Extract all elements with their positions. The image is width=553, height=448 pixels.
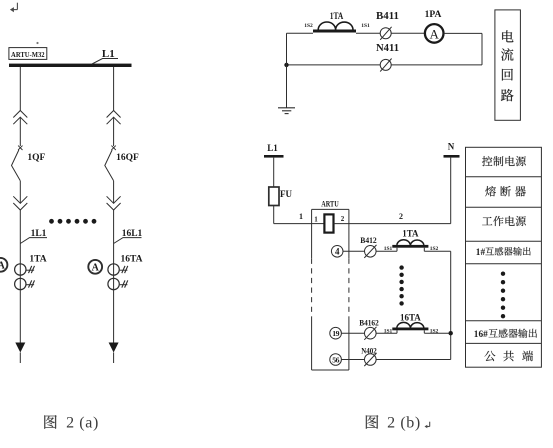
svg-text:1TA: 1TA bbox=[402, 229, 419, 239]
svg-text:16#: 16# bbox=[474, 330, 488, 340]
svg-text:1TA: 1TA bbox=[330, 12, 344, 22]
svg-text:1S2: 1S2 bbox=[304, 23, 313, 29]
svg-text:1QF: 1QF bbox=[27, 153, 45, 163]
svg-text:16QF: 16QF bbox=[116, 153, 139, 163]
svg-text:19: 19 bbox=[332, 329, 339, 338]
svg-text:B4162: B4162 bbox=[359, 319, 379, 328]
svg-text:ARTU: ARTU bbox=[321, 200, 339, 209]
svg-text:16TA: 16TA bbox=[121, 255, 143, 265]
svg-text:56: 56 bbox=[332, 355, 339, 364]
svg-text:FU: FU bbox=[280, 189, 292, 199]
svg-text:4: 4 bbox=[335, 247, 340, 257]
svg-text:L1: L1 bbox=[267, 143, 278, 153]
svg-text:B411: B411 bbox=[376, 11, 399, 22]
svg-text:1TA: 1TA bbox=[29, 255, 46, 265]
svg-text:16TA: 16TA bbox=[400, 313, 421, 323]
svg-text:16L1: 16L1 bbox=[122, 229, 143, 239]
svg-text:2: 2 bbox=[399, 212, 403, 221]
svg-text:1: 1 bbox=[299, 212, 303, 221]
svg-text:1L1: 1L1 bbox=[31, 229, 47, 239]
svg-text:N402: N402 bbox=[361, 347, 377, 356]
svg-text:1S1: 1S1 bbox=[384, 329, 393, 335]
svg-text:L1: L1 bbox=[102, 48, 115, 60]
svg-text:1S1: 1S1 bbox=[361, 23, 370, 29]
svg-text:N411: N411 bbox=[376, 43, 399, 54]
svg-text:1#: 1# bbox=[476, 248, 486, 258]
svg-text:B412: B412 bbox=[360, 236, 377, 245]
svg-text:1PA: 1PA bbox=[425, 10, 442, 20]
svg-text:2: 2 bbox=[341, 215, 345, 223]
svg-text:A: A bbox=[0, 261, 6, 272]
svg-text:2 (a): 2 (a) bbox=[66, 415, 99, 432]
svg-text:2 (b): 2 (b) bbox=[387, 415, 421, 432]
svg-text:ARTU-M32: ARTU-M32 bbox=[11, 50, 45, 59]
svg-text:N: N bbox=[448, 142, 455, 152]
svg-text:1: 1 bbox=[314, 216, 318, 224]
svg-text:1S1: 1S1 bbox=[384, 246, 393, 252]
svg-text:A: A bbox=[92, 263, 100, 274]
svg-text:A: A bbox=[430, 26, 440, 41]
